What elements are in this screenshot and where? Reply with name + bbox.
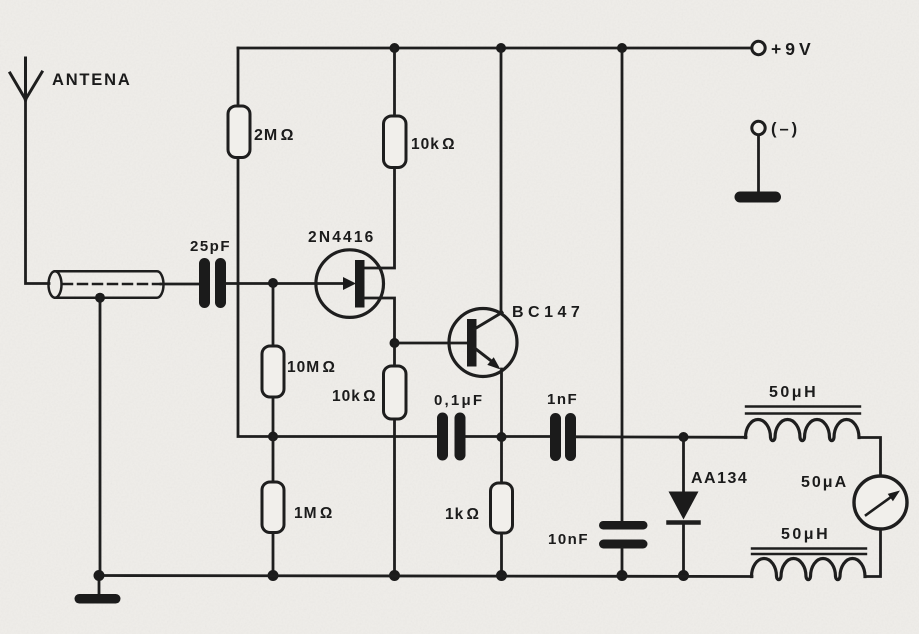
- node 1MΩ/rail: [268, 570, 279, 581]
- wire bias row to C2: [273, 435, 437, 438]
- wire 10MΩ to bias node: [272, 397, 275, 437]
- resistor R3 10kΩ: [384, 366, 407, 419]
- svg-text:10M Ω: 10M Ω: [287, 359, 336, 376]
- wire emitter node to 1kΩ: [500, 437, 503, 483]
- node rail/R2: [390, 43, 400, 53]
- wire bias node to 1MΩ: [272, 437, 275, 483]
- node 10nF/rail: [617, 570, 628, 581]
- svg-text:10nF: 10nF: [548, 531, 589, 548]
- node source junction: [390, 338, 400, 348]
- wire C2 to C3: [466, 435, 551, 438]
- resistor 1MΩ: [262, 482, 284, 533]
- capacitor 1nF: [550, 413, 576, 461]
- svg-text:AA134: AA134: [691, 470, 748, 487]
- node emitter junction: [497, 432, 507, 442]
- svg-text:2N4416: 2N4416: [308, 229, 376, 246]
- wire 1kΩ to ground rail: [500, 533, 503, 576]
- resistor 10MΩ: [262, 346, 284, 397]
- node tube-wire/rail: [94, 570, 105, 581]
- wire 10nF to ground rail: [621, 549, 624, 576]
- meter M1 50µA: [854, 476, 907, 529]
- svg-text:10k Ω: 10k Ω: [411, 136, 456, 153]
- svg-text:50μH: 50μH: [769, 384, 818, 401]
- node detector: [679, 432, 689, 442]
- node diode/rail: [678, 570, 689, 581]
- ground (battery negative): [735, 192, 782, 203]
- wire tube to 25pF: [161, 283, 200, 286]
- pickup tube (coax element): [49, 271, 164, 297]
- node gate bias: [268, 278, 278, 288]
- capacitor 25pF: [199, 258, 226, 308]
- wire (-) terminal to ground: [757, 135, 760, 193]
- terminal (-): [752, 121, 765, 134]
- wire tube tap down to ground rail: [99, 298, 102, 576]
- antenna: [10, 58, 42, 100]
- wire L1 to meter: [859, 438, 881, 477]
- terminal +9V: [752, 41, 765, 54]
- svg-text:0,1μF: 0,1μF: [434, 392, 484, 409]
- wire meter to L2: [865, 529, 881, 577]
- capacitor 10nF: [599, 521, 648, 549]
- capacitor 0,1µF: [437, 413, 466, 461]
- wire antenna to pickup tube: [26, 99, 50, 284]
- resistor 1kΩ: [491, 483, 513, 533]
- wire node to diode: [682, 437, 685, 492]
- wire R1 down to bias row: [238, 158, 273, 437]
- svg-text:+9V: +9V: [771, 39, 815, 59]
- wire gate node to 10MΩ: [272, 283, 275, 346]
- wire R3 to ground rail: [393, 419, 396, 576]
- resistor R2 10kΩ: [384, 116, 407, 168]
- svg-text:ANTENA: ANTENA: [52, 71, 132, 89]
- wire rail to Q2 collector: [500, 48, 503, 313]
- transistor Q1 2N4416: [316, 250, 395, 343]
- core lines L1: [746, 407, 860, 414]
- wire 25pF to Q1 gate: [226, 282, 345, 285]
- core lines L2: [752, 549, 866, 555]
- wire rail to R1: [237, 48, 240, 106]
- svg-text:1k Ω: 1k Ω: [445, 506, 480, 523]
- svg-text:1M Ω: 1M Ω: [294, 505, 333, 522]
- node tube tap: [95, 293, 105, 303]
- svg-text:BC147: BC147: [512, 304, 584, 321]
- svg-text:1nF: 1nF: [547, 391, 578, 408]
- transistor Q2 BC147: [449, 309, 517, 377]
- resistor R1 2MΩ: [228, 106, 250, 158]
- node bias junction: [268, 432, 278, 442]
- node rail/C5: [617, 43, 627, 53]
- rail ground (bottom): [99, 576, 752, 577]
- node 1kΩ/rail: [496, 570, 507, 581]
- ground (main): [75, 576, 121, 604]
- wire 1MΩ to ground rail: [272, 533, 275, 576]
- svg-text:25pF: 25pF: [190, 238, 231, 255]
- wire source node to Q2 base: [395, 342, 468, 345]
- rail +9V: [238, 47, 752, 50]
- wire rail down to 10nF: [621, 48, 624, 521]
- svg-text:2M Ω: 2M Ω: [254, 127, 294, 144]
- svg-text:(–): (–): [771, 120, 800, 138]
- svg-text:10k Ω: 10k Ω: [332, 388, 377, 405]
- svg-text:50μH: 50μH: [781, 526, 830, 543]
- wire Q2 emitter down: [500, 369, 503, 437]
- inductor L1 50µH: [746, 420, 860, 441]
- wire source node to R3: [393, 343, 396, 366]
- wire R2 to Q1 drain: [365, 168, 395, 269]
- svg-text:50μA: 50μA: [801, 474, 848, 491]
- wire C3 to L1: [576, 435, 746, 438]
- node R3/rail: [389, 570, 400, 581]
- wire diode to ground rail: [682, 524, 685, 576]
- diode AA134: [669, 492, 699, 523]
- inductor L2 50µH: [752, 559, 866, 580]
- wire rail to R2: [393, 48, 396, 116]
- node rail/Q2 collector: [496, 43, 506, 53]
